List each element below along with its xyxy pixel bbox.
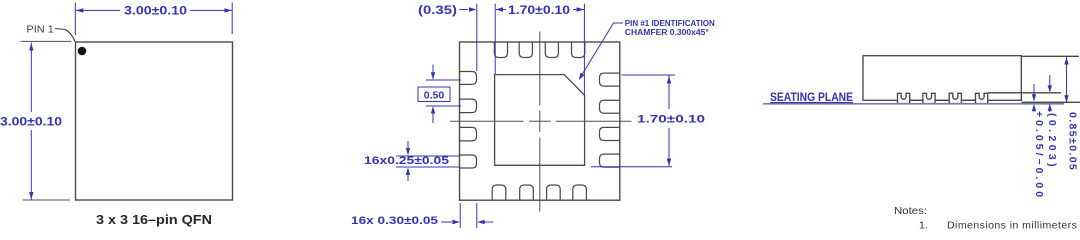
svg-text:3.00±0.10: 3.00±0.10 (0, 117, 62, 129)
svg-text:16x 0.30±0.05: 16x 0.30±0.05 (351, 215, 438, 227)
svg-text:Dimensions in millimeters: Dimensions in millimeters (947, 220, 1077, 231)
svg-text:(0.35): (0.35) (418, 5, 457, 17)
svg-text:1.70±0.10: 1.70±0.10 (508, 5, 570, 17)
svg-text:0.50: 0.50 (424, 90, 445, 102)
svg-text:16x0.25±0.05: 16x0.25±0.05 (364, 155, 449, 167)
svg-text:+0.05/−0.00: +0.05/−0.00 (1033, 111, 1045, 200)
svg-text:(0.203): (0.203) (1046, 113, 1058, 170)
svg-text:1.: 1. (919, 220, 928, 231)
svg-text:PIN #1 IDENTIFICATION: PIN #1 IDENTIFICATION (625, 19, 715, 28)
svg-text:3 x 3 16–pin QFN: 3 x 3 16–pin QFN (96, 212, 212, 227)
svg-text:0.85±0.05: 0.85±0.05 (1067, 112, 1079, 171)
svg-text:CHAMFER 0.300x45°: CHAMFER 0.300x45° (625, 28, 709, 37)
svg-text:1.70±0.10: 1.70±0.10 (637, 114, 705, 126)
svg-text:3.00±0.10: 3.00±0.10 (124, 6, 187, 18)
svg-text:PIN 1: PIN 1 (26, 25, 54, 36)
svg-text:Notes:: Notes: (894, 205, 927, 217)
svg-text:SEATING PLANE: SEATING PLANE (770, 92, 853, 104)
